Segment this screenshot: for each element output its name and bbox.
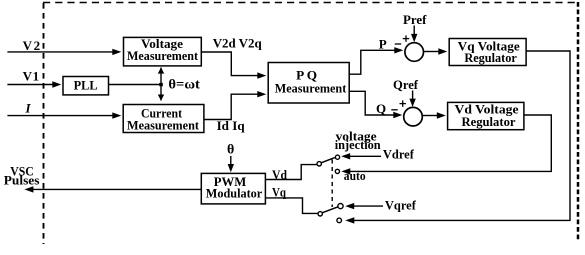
svg-text:Qref: Qref — [393, 77, 419, 92]
svg-text:Q: Q — [376, 101, 386, 116]
wire Vdref input — [350, 155, 382, 157]
wire theta distribution vertical — [160, 68, 162, 101]
svg-text:θ: θ — [227, 143, 234, 158]
svg-text:Measurement: Measurement — [275, 81, 347, 96]
svg-text:P: P — [379, 36, 387, 51]
svg-text:Vqref: Vqref — [385, 197, 417, 212]
block PLL — [63, 77, 109, 95]
switch SW2 contact voltage-injection — [338, 204, 343, 209]
svg-text:PLL: PLL — [74, 78, 98, 93]
node minus sign S2 — [391, 109, 397, 111]
wire summer 1 to Vq regulator — [424, 51, 439, 53]
svg-text:I: I — [25, 100, 32, 115]
svg-text:Pulses: Pulses — [4, 172, 40, 187]
svg-text:Pref: Pref — [403, 12, 427, 27]
svg-text:Regulator: Regulator — [462, 114, 516, 129]
block PQ Measurement — [268, 63, 349, 104]
wire V1 input — [7, 84, 52, 86]
svg-text:auto: auto — [344, 168, 366, 183]
svg-text:Modulator: Modulator — [206, 185, 263, 200]
wire Vqref input — [354, 205, 384, 207]
switch SW1 contact auto — [335, 169, 339, 173]
node minus sign S1 — [395, 43, 401, 45]
wire Current Measurement output Idq to PQ — [204, 94, 258, 119]
switch SW2 pole — [318, 212, 322, 216]
wire V2 input — [7, 51, 112, 53]
block Current Measurement — [123, 105, 204, 133]
block PWM Modulator — [201, 173, 265, 204]
block Vd Voltage Regulator — [448, 102, 524, 130]
wire VSC pulses output — [33, 188, 201, 190]
wire Vd into PWM from switch 1 — [265, 165, 317, 180]
svg-text:V2d V2q: V2d V2q — [213, 35, 263, 50]
switch SW1 gang to SW2 dashed link — [331, 160, 333, 208]
switch SW1 blade — [321, 158, 335, 163]
svg-text:Vq: Vq — [272, 184, 287, 199]
svg-text:Id Iq: Id Iq — [217, 118, 246, 133]
node plus sign S1 — [403, 38, 409, 40]
wire theta into PWM modulator — [230, 156, 232, 166]
wire Vq regulator feedback to switch 2 auto contact — [354, 51, 570, 220]
wire Qref into summer 2 — [412, 91, 414, 100]
node theta junction dot — [159, 83, 163, 87]
wire P output to summer 1 — [349, 50, 394, 74]
dashed boundary top — [43, 2, 578, 4]
wire I input — [7, 115, 112, 117]
wire Voltage Measurement output V2dq to PQ — [201, 52, 257, 76]
svg-text:Vd: Vd — [272, 167, 288, 182]
node plus sign S2 — [400, 103, 406, 105]
svg-text:injection: injection — [335, 137, 382, 152]
block Voltage Measurement — [124, 36, 202, 66]
summer S1 — [405, 43, 424, 62]
dashed boundary left — [43, 3, 45, 244]
svg-text:θ=ωt: θ=ωt — [168, 77, 200, 92]
svg-text:Measurement: Measurement — [127, 48, 199, 63]
switch SW2 blade — [322, 207, 338, 213]
wire summer 2 to Vd regulator — [422, 115, 437, 117]
svg-text:Measurement: Measurement — [127, 118, 200, 133]
svg-text:Vdref: Vdref — [383, 147, 415, 162]
svg-text:V1: V1 — [23, 69, 39, 84]
dashed boundary right — [577, 2, 580, 242]
block Vq Voltage Regulator — [449, 38, 526, 65]
wire Pref into summer 1 — [413, 26, 415, 35]
wire PLL output to theta node — [109, 84, 162, 86]
summer S2 — [404, 107, 423, 126]
switch SW2 contact auto — [337, 218, 342, 223]
wire Vd regulator feedback to switch 1 auto contact — [350, 115, 551, 171]
switch SW1 contact voltage-injection — [335, 155, 339, 159]
wire Vq into PWM from switch 2 — [265, 198, 318, 214]
svg-text:V2: V2 — [23, 38, 40, 53]
svg-text:Regulator: Regulator — [464, 50, 517, 65]
switch SW1 pole — [317, 162, 321, 166]
wire Q output to summer 2 — [349, 91, 393, 115]
